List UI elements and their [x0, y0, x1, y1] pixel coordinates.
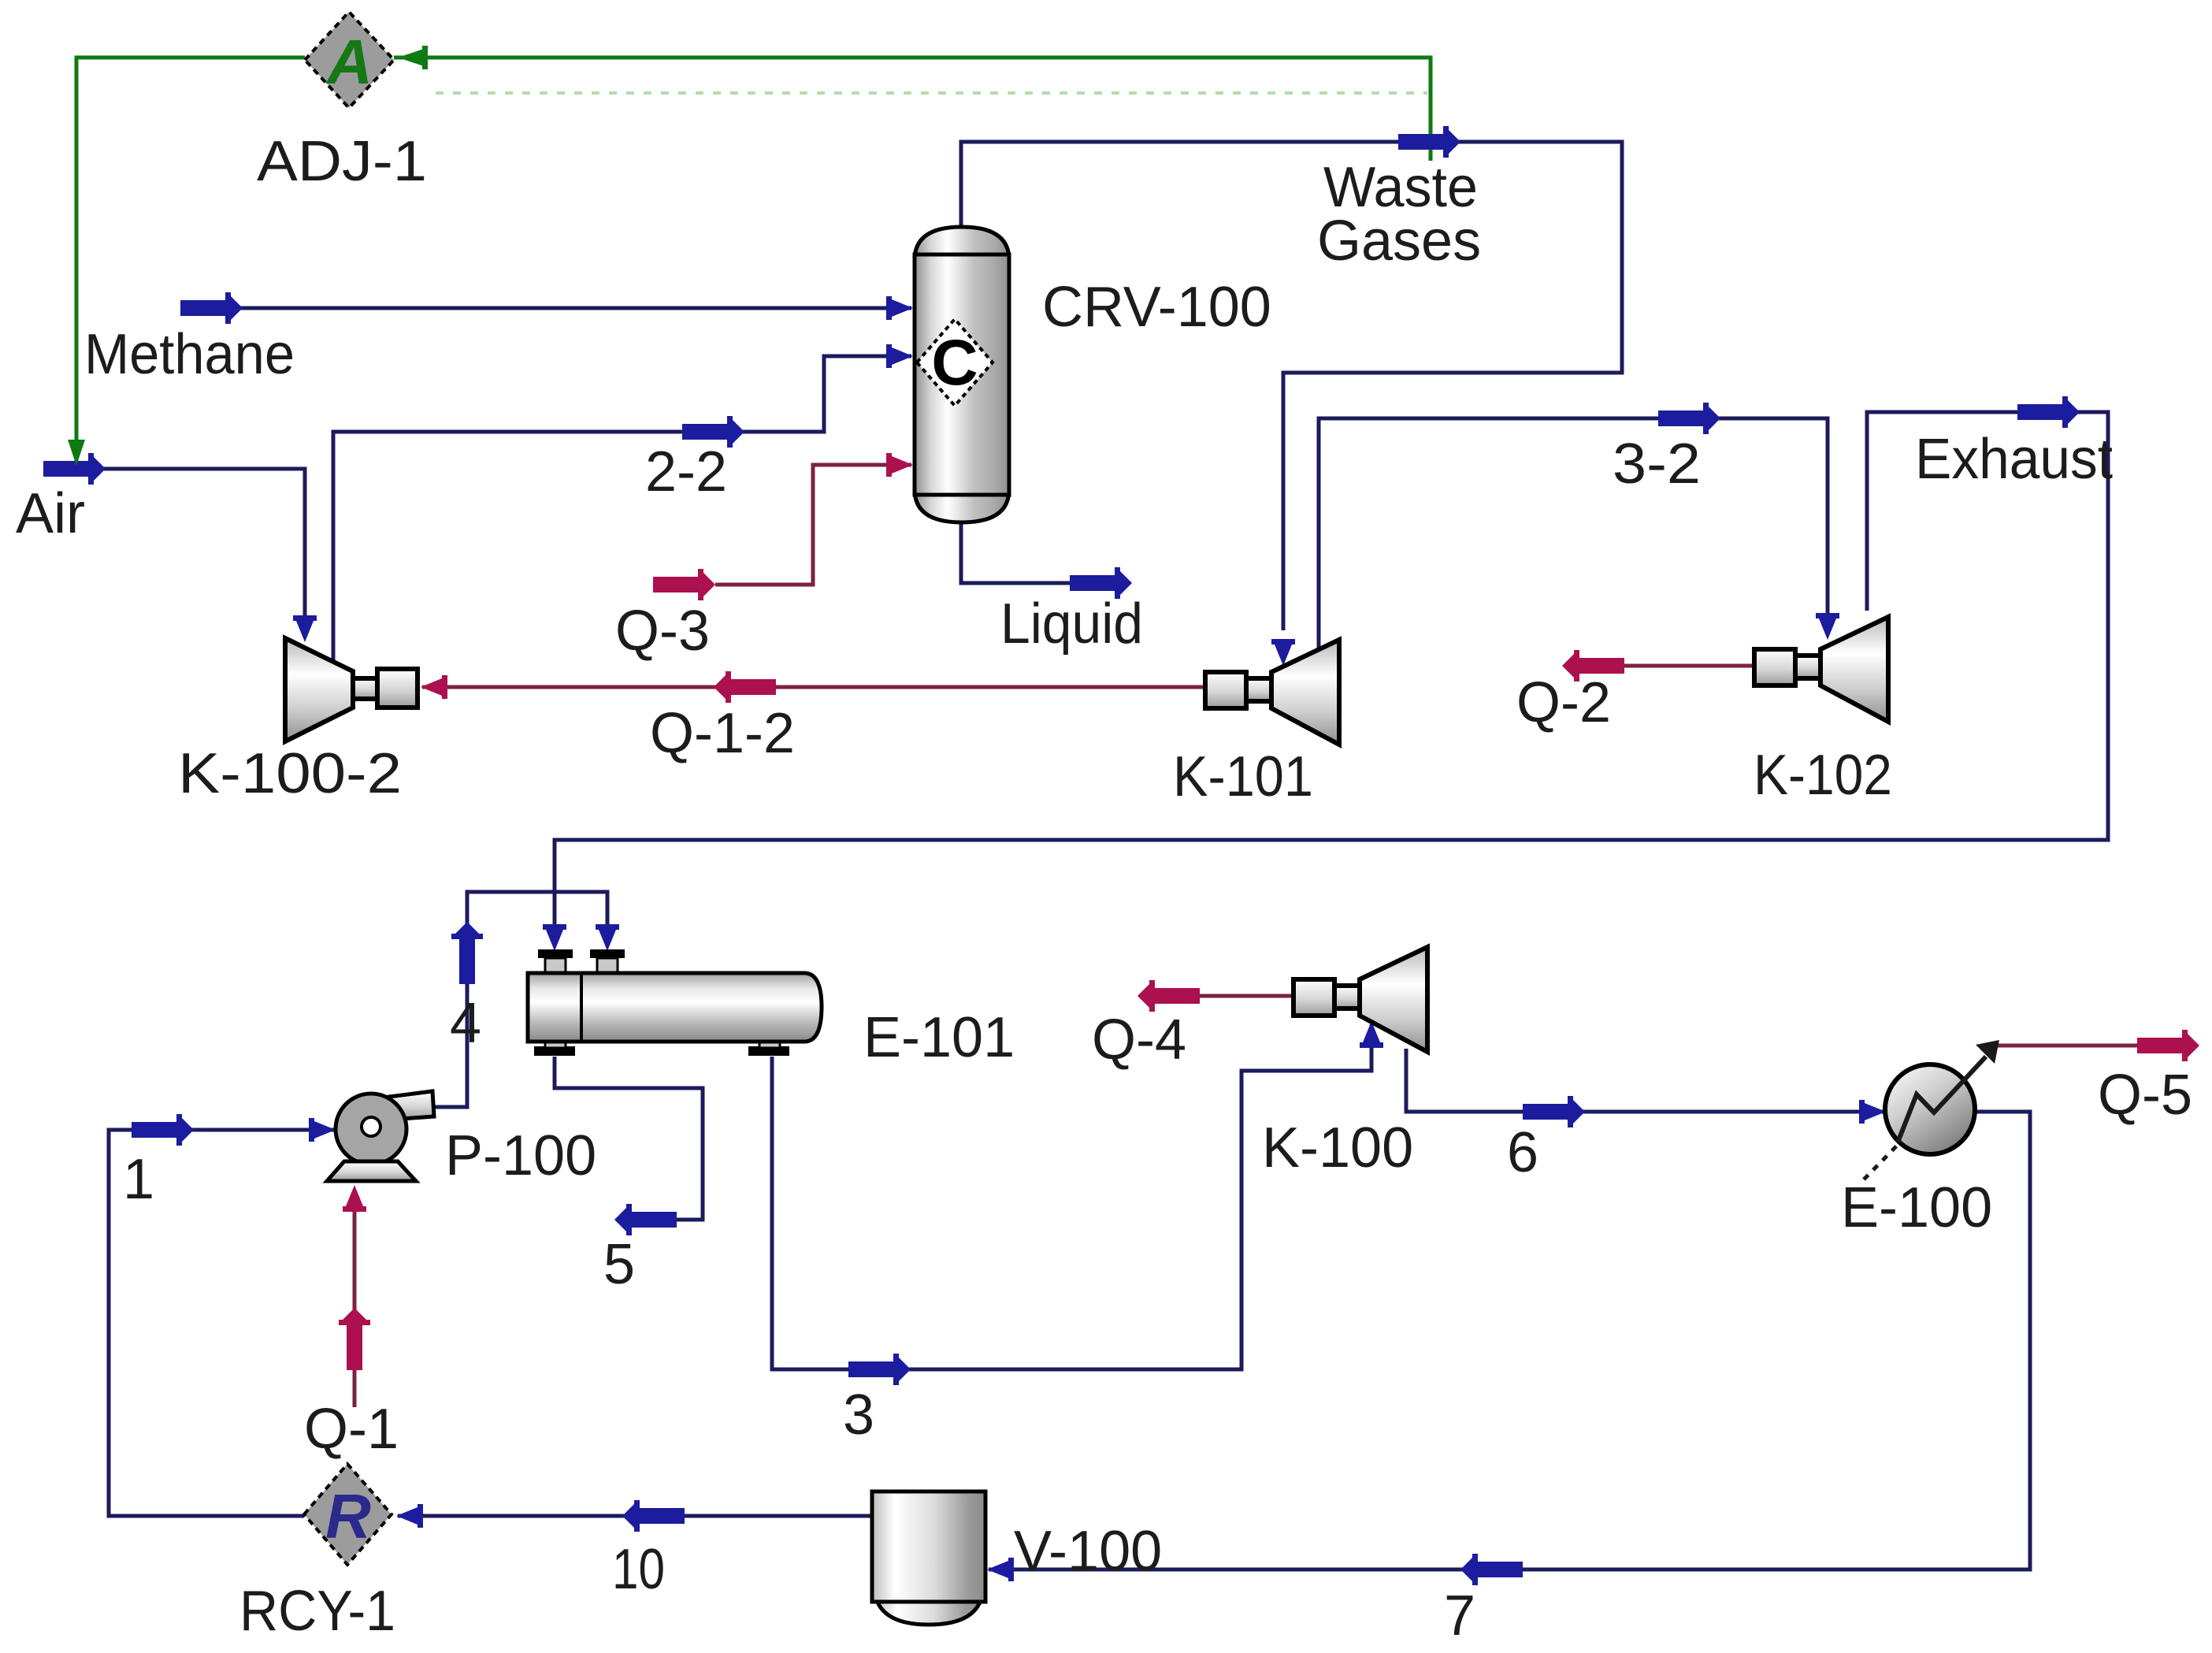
svg-text:7: 7 — [1444, 1584, 1475, 1647]
svg-text:Q-1-2: Q-1-2 — [650, 702, 795, 765]
svg-text:V-100: V-100 — [1014, 1520, 1162, 1583]
svg-text:K-100-2: K-100-2 — [178, 742, 402, 805]
compressor K-100-2 — [285, 638, 418, 741]
stream 6 — [1406, 1049, 1886, 1127]
stream Exhaust — [543, 396, 2108, 951]
svg-text:Q-2: Q-2 — [1516, 671, 1611, 734]
svg-text:Q-5: Q-5 — [2098, 1064, 2192, 1127]
svg-text:E-100: E-100 — [1841, 1176, 1992, 1239]
svg-text:Liquid: Liquid — [1000, 592, 1143, 656]
svg-text:CRV-100: CRV-100 — [1042, 276, 1271, 339]
svg-text:A: A — [325, 27, 373, 97]
stream 3 — [772, 1021, 1383, 1385]
stream 4 — [434, 892, 619, 1107]
compressor K-100 — [1293, 947, 1427, 1052]
svg-text:C: C — [931, 327, 978, 399]
adjust block ADJ-1 — [305, 12, 394, 108]
stream 1 — [109, 1114, 336, 1516]
pump P-100 — [327, 1091, 434, 1181]
svg-text:Methane: Methane — [84, 323, 295, 386]
svg-text:2-2: 2-2 — [645, 440, 727, 503]
stream 5 — [555, 1057, 703, 1235]
svg-text:3: 3 — [843, 1384, 874, 1447]
energy stream Q-2 — [1562, 650, 1754, 682]
svg-text:10: 10 — [612, 1538, 665, 1601]
svg-text:Q-3: Q-3 — [615, 600, 710, 663]
stream 10 — [396, 1500, 872, 1532]
svg-text:P-100: P-100 — [445, 1124, 596, 1187]
svg-text:4: 4 — [450, 992, 481, 1055]
energy stream Q-1 — [339, 1185, 370, 1407]
svg-text:3-2: 3-2 — [1613, 433, 1701, 496]
cooler E-100 — [1864, 1040, 1999, 1179]
svg-text:K-102: K-102 — [1754, 744, 1892, 807]
svg-text:6: 6 — [1507, 1121, 1538, 1184]
energy stream Q-3 — [653, 453, 913, 600]
svg-text:1: 1 — [123, 1148, 154, 1211]
svg-text:R: R — [325, 1481, 371, 1551]
stream Air — [43, 453, 317, 642]
energy stream Q-5 — [1993, 1030, 2199, 1061]
stream Liquid — [961, 521, 1132, 599]
svg-text:Q-1: Q-1 — [304, 1398, 399, 1461]
svg-text:5: 5 — [603, 1233, 635, 1296]
svg-text:K-101: K-101 — [1173, 745, 1313, 808]
svg-text:K-100: K-100 — [1262, 1116, 1413, 1179]
energy stream Q-4 — [1138, 980, 1293, 1012]
stream Methane — [180, 292, 913, 324]
svg-text:Exhaust: Exhaust — [1915, 428, 2113, 491]
stream Waste Gases — [961, 126, 1622, 666]
svg-text:Q-4: Q-4 — [1092, 1009, 1186, 1072]
svg-text:E-101: E-101 — [863, 1006, 1015, 1069]
svg-text:RCY-1: RCY-1 — [239, 1580, 395, 1643]
expander K-101 — [1205, 640, 1339, 745]
recycle block RCY-1 — [304, 1464, 392, 1565]
separator V-100 — [872, 1491, 985, 1625]
reactor CRV-100 — [915, 227, 1009, 522]
heat exchanger E-101 — [528, 949, 822, 1056]
stream 7 — [987, 1112, 2030, 1585]
svg-text:Air: Air — [16, 482, 85, 545]
wire green adjust loop — [68, 46, 1431, 466]
energy stream Q-1-2 — [421, 671, 1205, 703]
stream 3-2 — [1319, 403, 1839, 648]
stream 2-2 — [333, 344, 913, 662]
svg-text:ADJ-1: ADJ-1 — [257, 130, 427, 193]
expander K-102 — [1754, 617, 1888, 722]
svg-text:Gases: Gases — [1317, 210, 1481, 273]
wire dashed adjust target line — [436, 91, 1427, 95]
